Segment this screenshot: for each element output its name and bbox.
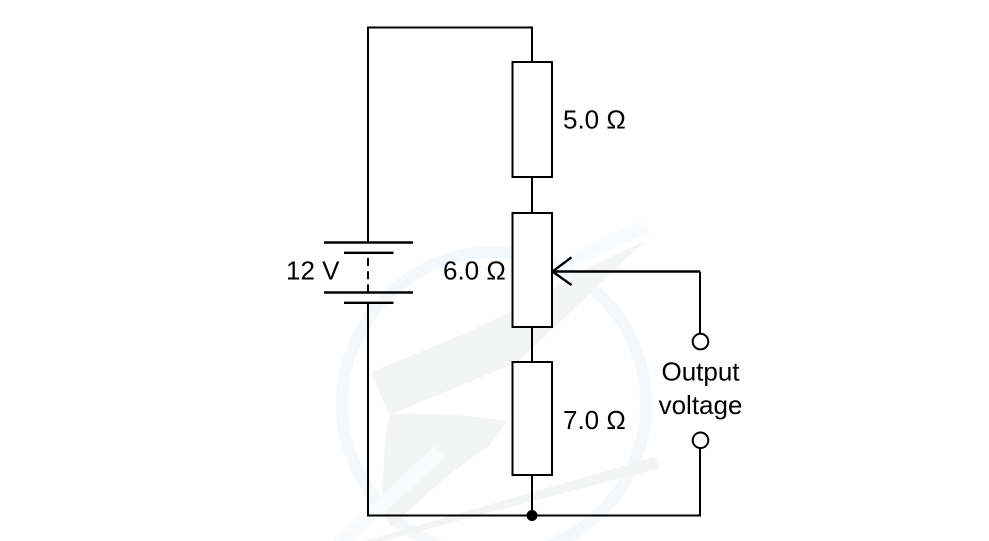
junction node (dot) [527,510,538,521]
potentiometer R2 [513,213,553,327]
svg-text:12 V: 12 V [286,256,340,286]
wire top horizontal [368,27,532,29]
wire right drop to R1 [531,27,533,63]
svg-text:5.0 Ω: 5.0 Ω [563,105,626,135]
wire R1 to R2 [531,177,533,213]
output terminal top [693,334,709,350]
battery B1 [324,243,413,303]
potentiometer wiper arrow [553,257,701,285]
wire R3 to bottom node [531,475,533,516]
output terminal bottom [693,433,709,449]
resistor R3 [513,362,553,475]
wire left upper (battery top lead) [367,27,369,243]
wire bottom output terminal to bottom node [699,449,701,517]
svg-text:6.0 Ω: 6.0 Ω [443,256,506,286]
svg-text:7.0 Ω: 7.0 Ω [563,405,626,435]
svg-text:Output: Output [661,357,740,387]
wire wiper to top output terminal [699,272,701,334]
wire left lower (battery bottom lead) [367,304,369,516]
resistor R1 [513,62,553,177]
wire R2 to R3 [531,327,533,362]
wire bottom horizontal [367,515,700,517]
svg-text:voltage: voltage [659,390,743,420]
